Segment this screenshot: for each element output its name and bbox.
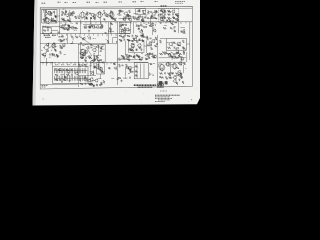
transistor Q112 <box>151 55 155 59</box>
transistor Q71 <box>158 14 161 17</box>
wire segment <box>89 65 92 67</box>
wire inside deflection 2 <box>140 64 142 79</box>
wire segment <box>126 55 128 60</box>
wire segment <box>121 24 125 26</box>
wire stub on lower bus 18 <box>120 34 122 36</box>
wire stub on lower bus 13 <box>97 34 99 37</box>
wire c1 drop <box>52 63 54 67</box>
ground c3 <box>120 80 122 82</box>
resistor R2 <box>44 19 47 21</box>
resistor R192 <box>100 70 103 72</box>
comb value label 5 <box>79 64 82 66</box>
resistor R171 <box>149 53 151 55</box>
wire segment <box>154 24 156 26</box>
wire stub on lower long bus 10 <box>78 62 80 64</box>
note text above frame far right line 1 <box>175 1 185 3</box>
wire segment <box>112 37 117 39</box>
capacitor C186 <box>166 77 168 80</box>
capacitor C163 <box>156 42 158 45</box>
capacitor C114 <box>105 15 108 17</box>
capacitor C166 <box>132 56 135 58</box>
resistor R49 <box>160 40 162 43</box>
resistor R205 body <box>62 76 64 81</box>
speaker SP1 <box>172 62 177 69</box>
capacitor C5 <box>66 19 69 21</box>
transistor Q29 <box>89 77 93 81</box>
transistor Q82 <box>133 38 137 42</box>
solder joint c1 <box>52 62 53 63</box>
transistor Q1 (RF amp) <box>47 11 51 15</box>
wire segment <box>142 9 146 11</box>
junction node <box>50 49 53 52</box>
capacitor C137 <box>172 20 175 22</box>
junction node <box>135 40 138 43</box>
resistor R215 body <box>78 76 80 81</box>
wire slope link <box>86 47 92 56</box>
transistor Q102 <box>173 79 177 83</box>
resistor R215 <box>174 30 176 32</box>
junction node <box>99 54 102 57</box>
value label <box>112 17 115 19</box>
value label <box>128 73 130 75</box>
capacitor C174 <box>67 72 70 74</box>
wire stub on lower long bus 7 <box>66 62 68 64</box>
wire drop x150 <box>150 19 152 27</box>
wire AGC line <box>51 29 58 31</box>
tube type label above frame #4 <box>73 1 77 3</box>
transistor Q70 <box>159 17 163 21</box>
capacitor C172 <box>165 51 168 53</box>
resistor R223 <box>181 31 183 33</box>
page number mark <box>191 99 192 100</box>
resistor R34 <box>80 57 83 59</box>
capacitor C27 <box>135 49 138 51</box>
wire drop x98 <box>98 49 100 56</box>
transistor Q63 <box>122 30 125 33</box>
transistor Q90 <box>180 57 183 60</box>
wire segment <box>123 16 125 21</box>
value label <box>68 25 70 27</box>
capacitor C42 <box>122 64 124 67</box>
tube type label above frame #2 <box>58 1 61 3</box>
page (scanned schematic sheet) <box>33 0 201 106</box>
wire stub on B+ bus 13 <box>120 22 122 24</box>
wire vertical x78 <box>77 44 79 87</box>
capacitor C160 <box>120 40 122 43</box>
wire segment <box>180 27 185 29</box>
resistor R224 <box>61 40 63 42</box>
transistor Q93 <box>87 79 91 83</box>
wire segment <box>80 79 82 83</box>
wire drop x160 <box>160 22 162 24</box>
resistor R169 <box>138 56 140 58</box>
capacitor C181 <box>132 70 134 73</box>
resistor R211 <box>111 23 113 25</box>
capacitor C170 <box>177 44 180 46</box>
resistor R118 <box>104 18 106 20</box>
capacitor C116 <box>83 26 86 28</box>
transistor Q3 (IF amp 1) <box>67 12 71 16</box>
wire segment <box>74 16 76 18</box>
transistor Q61 <box>122 17 126 21</box>
resistor R227 <box>136 54 138 56</box>
schematic title text line 1 <box>134 84 157 86</box>
wire segment <box>72 37 74 41</box>
wire segment <box>94 25 96 27</box>
resistor R203 body <box>59 76 61 81</box>
sound IF box <box>136 9 146 15</box>
transistor Q109 <box>114 67 117 70</box>
resistor R191 <box>94 66 96 68</box>
wire IF bus <box>77 21 118 23</box>
wire segment <box>64 20 67 22</box>
wire top rail <box>40 7 192 10</box>
capacitor C183 <box>159 76 161 79</box>
wire stub on B+ bus 10 <box>105 22 107 24</box>
wire stub on B+ bus 3 <box>70 22 72 24</box>
junction node <box>139 23 142 26</box>
transistor Q55 <box>110 11 113 14</box>
capacitor C217 lead <box>81 68 83 73</box>
resistor R8 <box>62 25 65 27</box>
value label <box>93 38 96 40</box>
capacitor C124 <box>138 9 141 11</box>
transistor Q86 <box>126 57 130 61</box>
wire drop x120 <box>120 21 122 23</box>
transistor Q28 <box>83 77 87 81</box>
tube type label above frame #11 <box>155 1 158 3</box>
capacitor C154 <box>141 35 144 37</box>
transistor Q33 <box>178 61 182 65</box>
capacitor C207 lead <box>65 68 67 73</box>
resistor R10 <box>104 12 106 15</box>
capacitor C195 <box>70 36 73 38</box>
resistor R206 body <box>63 76 65 81</box>
resistor R161 <box>138 47 141 49</box>
wire stub on lower long bus 3 <box>50 62 52 64</box>
junction node <box>180 77 183 80</box>
resistor R44 <box>121 55 124 57</box>
value label <box>50 31 52 33</box>
wire stub on lower long bus 2 <box>46 62 48 64</box>
resistor R66 <box>135 66 138 68</box>
resistor R211 body <box>72 76 74 81</box>
wire inside deflection 1 <box>136 64 138 79</box>
resistor R225 <box>139 59 142 61</box>
transistor Q4 (IF amp 2) <box>91 13 95 17</box>
transistor Q114 <box>88 36 91 39</box>
wire stub on lower bus 8 <box>75 34 77 36</box>
wire drop x100 <box>100 18 102 25</box>
transistor Q18 <box>42 53 46 57</box>
tube type label above frame #7 <box>104 1 108 3</box>
wire segment <box>50 17 52 22</box>
tube type label above frame #1 <box>42 2 46 4</box>
value label <box>45 21 47 23</box>
resistor R68 <box>135 75 138 77</box>
transistor Q59 <box>117 13 120 16</box>
tube type label above frame #9 <box>133 1 137 3</box>
wire hv lead <box>187 43 190 45</box>
resistor R178 <box>162 51 165 53</box>
wire vertical x108 <box>108 22 110 44</box>
resistor R131 <box>128 17 130 19</box>
value label <box>147 45 149 47</box>
junction node <box>40 49 43 52</box>
resistor R24 <box>168 14 171 16</box>
wire drop x140 <box>140 15 142 18</box>
tube type label above frame #5 <box>87 1 91 3</box>
transistor Q89 <box>172 55 176 59</box>
capacitor C12 <box>140 24 143 26</box>
resistor R37 <box>127 35 130 37</box>
resistor R158 <box>132 40 134 42</box>
transistor Q24 <box>153 55 157 59</box>
capacitor C34 <box>183 53 186 55</box>
transistor Q76 <box>52 43 55 46</box>
wire segment <box>150 42 152 45</box>
resistor R204 body <box>60 76 62 81</box>
transistor Q68 <box>161 9 165 13</box>
wire vertical x152 <box>152 22 154 35</box>
capacitor C110 <box>62 18 65 20</box>
resistor R122 <box>93 16 95 19</box>
resistor R107 <box>46 17 48 19</box>
resistor R205 <box>170 72 172 74</box>
transistor Q113 <box>92 59 95 62</box>
footer text line 5 <box>155 100 165 102</box>
capacitor C215 lead <box>78 68 80 73</box>
resistor R6 <box>62 19 65 21</box>
comb value label 3 <box>67 64 70 66</box>
wire segment <box>164 24 167 26</box>
capacitor C128 <box>143 26 145 29</box>
transistor Q58 <box>77 16 80 19</box>
wire stub on lower long bus 17 <box>106 62 108 64</box>
title block square 1 <box>157 84 160 88</box>
resistor R123 <box>111 17 114 19</box>
capacitor C101 <box>70 14 73 16</box>
capacitor C18 <box>166 20 169 22</box>
wire segment <box>139 56 141 60</box>
wire segment <box>153 27 155 32</box>
transistor Q67 <box>141 19 144 22</box>
resistor R40 <box>127 39 130 41</box>
comb value label 4 <box>73 64 76 66</box>
value label <box>124 29 127 31</box>
value label <box>114 18 116 20</box>
tuner ground <box>43 20 45 22</box>
wire b4 lower bus <box>159 57 187 59</box>
resistor R176 <box>182 47 184 49</box>
resistor R108 <box>54 20 56 22</box>
transistor Q104 <box>59 25 62 28</box>
capacitor C127 <box>138 25 140 28</box>
IF transformer T4 <box>109 11 114 18</box>
wire segment <box>171 55 176 57</box>
capacitor C196 <box>115 41 118 43</box>
ground c4 <box>178 79 180 81</box>
value label <box>93 52 95 54</box>
resistor R165 <box>151 47 153 50</box>
wire stub on B+ bus 23 <box>170 22 172 24</box>
wire segment <box>149 72 151 76</box>
wire stub on B+ bus 1 <box>60 22 62 24</box>
wire stub on B+ bus 20 <box>155 22 157 24</box>
wire segment <box>101 48 105 50</box>
resistor R60 <box>85 64 87 67</box>
capacitor C104 <box>50 20 53 22</box>
transistor Q97 <box>177 74 180 77</box>
wire segment <box>47 27 51 29</box>
wire segment <box>159 63 162 65</box>
resistor R206 <box>68 25 70 27</box>
transistor Q2 (mixer) <box>50 18 54 22</box>
resistor R63 <box>88 83 91 85</box>
wire segment <box>43 19 46 21</box>
capacitor C15 <box>164 13 167 15</box>
capacitor C149 <box>94 59 96 62</box>
capacitor C10 <box>142 10 145 12</box>
transistor Q72 <box>175 18 178 21</box>
capacitor C141 <box>52 46 54 49</box>
transistor Q62 <box>126 14 129 17</box>
capacitor C106 <box>46 27 49 29</box>
resistor R222 <box>183 32 185 34</box>
resistor R218 body <box>83 76 85 81</box>
transistor Q103 <box>177 70 180 73</box>
resistor R33 <box>98 45 100 48</box>
resistor R117 <box>114 19 116 21</box>
resistor R72 <box>176 73 179 75</box>
resistor R9 <box>87 12 89 15</box>
resistor R196 <box>176 82 178 84</box>
resistor R30 <box>60 51 62 54</box>
resistor R67 <box>135 71 138 73</box>
resistor R228 <box>148 55 150 58</box>
transistor Q73 <box>175 13 178 16</box>
transistor Q84 <box>145 36 148 39</box>
resistor R155 <box>96 56 98 58</box>
capacitor C139 <box>53 42 56 44</box>
capacitor C156 <box>140 34 142 37</box>
resistor R11 <box>119 10 121 13</box>
resistor R189 <box>96 84 98 86</box>
transistor Q105 <box>70 26 74 30</box>
transistor Q10 (detector row) <box>99 25 103 29</box>
capacitor C201 lead <box>55 68 57 73</box>
capacitor C199 <box>146 57 148 60</box>
resistor R145 <box>175 14 177 16</box>
value label <box>74 29 77 31</box>
wire vertical x157 <box>157 35 159 85</box>
resistor R202 <box>182 81 184 83</box>
wire segment <box>170 63 175 65</box>
control label CONTRAST <box>45 36 51 38</box>
wire segment <box>123 77 128 79</box>
value label <box>142 41 144 43</box>
resistor R219 body <box>85 76 87 81</box>
resistor R36 <box>119 35 122 37</box>
capacitor C135 <box>163 15 166 17</box>
capacitor C205 lead <box>62 68 64 73</box>
wire segment <box>115 68 117 70</box>
value label <box>71 42 74 44</box>
tube type label above frame #8 <box>119 1 123 3</box>
resistor R157 <box>141 35 143 37</box>
choke L5 <box>101 46 104 50</box>
resistor R57 <box>55 79 58 81</box>
ground horiz box <box>140 49 142 51</box>
wire segment <box>178 44 181 46</box>
resistor R52 <box>179 53 182 55</box>
junction node <box>60 47 63 50</box>
title sq2 fill <box>161 85 163 87</box>
wire stub on lower bus 10 <box>84 34 86 36</box>
wire segment <box>84 16 86 20</box>
resistor R172 <box>145 58 147 60</box>
wire inside deflection 3 <box>143 64 145 79</box>
legend block B2 (dark) <box>165 81 168 84</box>
capacitor C144 <box>54 50 57 52</box>
resistor R114 <box>71 13 73 16</box>
capacitor C37 <box>70 69 73 71</box>
resistor R210 <box>110 30 112 33</box>
capacitor C169 <box>148 56 150 59</box>
wire stub on lower long bus 8 <box>70 62 72 64</box>
junction node <box>143 22 146 25</box>
resistor R104 <box>54 15 56 17</box>
title sq1 fill <box>158 85 160 87</box>
resistor R138 <box>141 19 143 21</box>
wire mid rail <box>40 43 117 45</box>
value label <box>150 73 153 75</box>
resistor R168 <box>122 56 125 58</box>
footer text line 4 <box>158 99 170 101</box>
capacitor C192 <box>147 22 150 24</box>
wire comb bus 1 <box>54 70 87 72</box>
capacitor C125 <box>136 18 138 21</box>
wire stub on B+ bus 24 <box>175 22 177 24</box>
capacitor C187 <box>64 28 66 31</box>
value label <box>83 44 85 46</box>
capacitor C161 <box>132 50 135 52</box>
wire tuner mid rail <box>42 26 60 28</box>
wire segment <box>111 38 113 43</box>
scan noise specks (decorative) <box>40 1 197 103</box>
capacitor C118 <box>125 16 128 18</box>
transistor Q34 <box>173 76 177 80</box>
transistor Q80 <box>84 50 88 54</box>
capacitor C197 <box>61 35 64 37</box>
resistor R197 <box>176 67 179 69</box>
resistor R214 body <box>77 76 79 81</box>
resistor R204 <box>181 77 183 79</box>
resistor R130 <box>127 14 130 16</box>
wire stub on B+ bus 16 <box>135 22 137 24</box>
ground vert section <box>98 59 100 61</box>
wire c1 feed <box>40 62 52 64</box>
resistor R179 <box>178 55 180 57</box>
resistor R230 <box>176 57 179 59</box>
transistor Q78 <box>80 52 84 56</box>
transistor Q75 <box>46 43 49 46</box>
resistor R190 <box>94 66 96 68</box>
transistor Q5 (IF amp 3) <box>105 14 109 18</box>
capacitor C153 <box>138 39 141 41</box>
wire drop x178 lower <box>178 50 180 53</box>
capacitor C152 <box>99 47 102 49</box>
